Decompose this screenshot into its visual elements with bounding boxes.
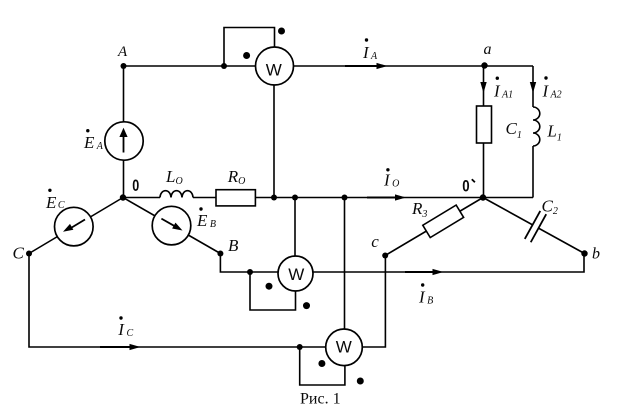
svg-text:0: 0 xyxy=(462,177,469,196)
svg-text:a: a xyxy=(484,41,492,58)
svg-text:C: C xyxy=(13,244,25,263)
svg-text:A: A xyxy=(117,44,128,60)
svg-text:W: W xyxy=(288,265,304,284)
svg-text:c: c xyxy=(371,232,379,251)
svg-text:b: b xyxy=(592,245,600,262)
svg-text:Рис. 1: Рис. 1 xyxy=(300,391,341,408)
svg-text:W: W xyxy=(336,337,352,356)
svg-text:B: B xyxy=(228,236,239,255)
svg-text:0: 0 xyxy=(132,176,139,195)
svg-text:W: W xyxy=(266,60,282,79)
